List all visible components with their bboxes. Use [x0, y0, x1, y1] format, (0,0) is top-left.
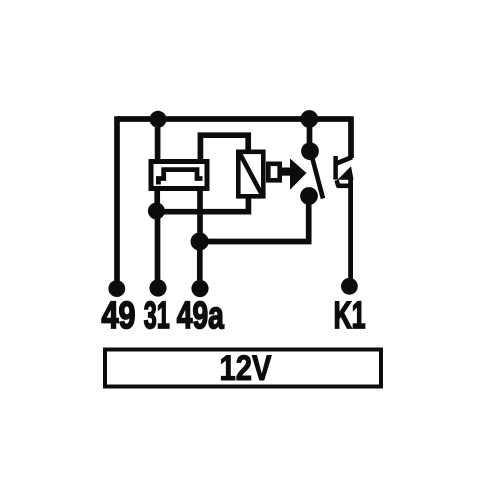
actuator plunger rod [281, 168, 293, 176]
svg-text:K1: K1 [334, 295, 366, 337]
transistor emitter lead [337, 180, 351, 186]
transistor emitter arrowhead [338, 166, 354, 180]
svg-text:49a: 49a [177, 295, 225, 337]
terminal 31 [149, 279, 166, 296]
wire top bus from terminal 49 corner to transistor branch [117, 116, 351, 122]
transistor base bar [333, 156, 338, 180]
svg-text:49: 49 [102, 295, 136, 337]
relay armature plate [268, 164, 279, 181]
actuation arrow [290, 159, 307, 190]
contact lever [311, 152, 323, 199]
wire top-right corner down to transistor collector [348, 116, 354, 158]
transistor collector lead [336, 157, 352, 163]
node F contact pivot dot [301, 142, 319, 160]
wire loop pulse generator top to relay coil top [200, 135, 248, 160]
node B contact top dot [300, 110, 318, 128]
node C junction at coil return [148, 203, 165, 220]
wire pulse generator bottom-right down to node D [197, 189, 203, 242]
terminal 49a [191, 280, 208, 297]
wire pulse generator bottom-left stub to node C [154, 189, 160, 211]
node E contact bottom dot [300, 187, 318, 205]
wire contact top dot to pivot dot [307, 119, 313, 151]
terminal 49 [108, 280, 125, 297]
wire node C down to terminal 31 [155, 211, 161, 288]
relay coil K box [238, 152, 263, 197]
wire left vertical to terminal 49 [114, 116, 120, 289]
wire relay coil bottom to node C [157, 197, 248, 212]
node A junction on top bus [150, 111, 167, 128]
node D junction on 49a branch [191, 232, 209, 250]
wire node D to contact bottom dot [200, 196, 309, 242]
relay coil diagonal [240, 154, 262, 195]
wire node D down to terminal 49a [197, 242, 203, 289]
wire from node A down to pulse generator [155, 119, 161, 161]
svg-text:12V: 12V [220, 349, 273, 388]
pulse generator box [151, 162, 207, 189]
wire transistor emitter down to terminal K1 [348, 179, 353, 286]
terminal K1 [341, 278, 358, 295]
svg-text:31: 31 [144, 295, 170, 337]
pulse waveform symbol [158, 170, 202, 185]
battery 12V box [105, 350, 381, 387]
